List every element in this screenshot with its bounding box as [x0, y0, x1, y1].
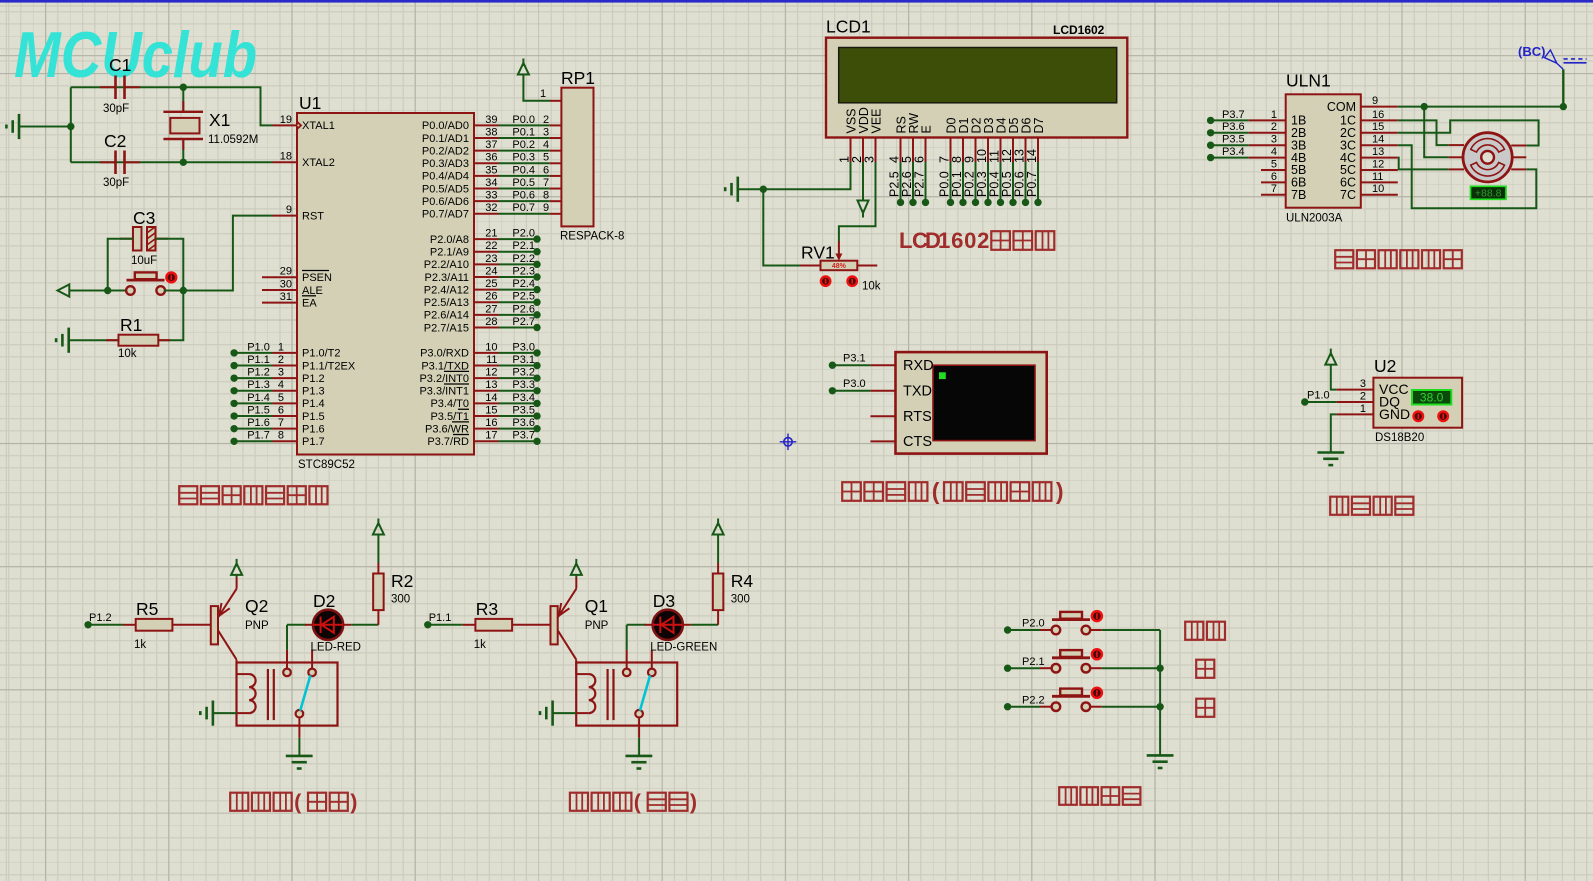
- node P2.5: [897, 199, 904, 206]
- svg-text:22: 22: [485, 240, 497, 252]
- svg-text:9: 9: [1372, 95, 1378, 107]
- svg-text:P2.2/A10: P2.2/A10: [424, 259, 469, 271]
- svg-text:2: 2: [278, 354, 284, 366]
- wire relay NO contact to ground: [638, 718, 640, 738]
- svg-text:21: 21: [485, 228, 497, 240]
- svg-text:P2.7: P2.7: [512, 316, 535, 328]
- LCD pin 2 VDD: [862, 138, 864, 163]
- node P3.4: [1207, 154, 1214, 161]
- junction key bus 2: [1156, 703, 1163, 710]
- LCD pin 4 RS: [900, 138, 902, 163]
- node P2.6: [533, 311, 540, 318]
- wire LCD data P2.6: [912, 162, 914, 202]
- ground (keys): [1147, 754, 1174, 757]
- ground (relay contact): [626, 755, 653, 758]
- svg-text:P2.0/A8: P2.0/A8: [430, 234, 469, 246]
- pin P3.0: [474, 352, 499, 354]
- svg-text:8: 8: [543, 190, 549, 202]
- wire power to VCC: [1331, 365, 1337, 390]
- LCD pin 7 D0: [950, 138, 952, 163]
- node P0.6: [1022, 199, 1029, 206]
- pin P1.2: [273, 377, 298, 379]
- pin P0.1: [474, 137, 499, 139]
- ground (R1): [67, 328, 70, 353]
- wire 2C to motor right-top: [1398, 120, 1539, 145]
- wire P3.1 to RXD: [832, 364, 870, 366]
- node P0.5: [1009, 199, 1016, 206]
- svg-text:P2.7: P2.7: [912, 171, 926, 197]
- svg-text:P0.7/AD7: P0.7/AD7: [422, 209, 469, 221]
- junction crystal left: [67, 123, 74, 130]
- ULN pin COM: [1361, 106, 1398, 108]
- node P0.0: [947, 199, 954, 206]
- wire ground to R1: [69, 339, 119, 341]
- svg-text:TXD: TXD: [903, 384, 932, 400]
- push button key P2.0: [1052, 626, 1061, 635]
- LCD pin 5 RW: [912, 138, 914, 163]
- svg-text:P3.3: P3.3: [512, 379, 535, 391]
- svg-text:7: 7: [1271, 183, 1277, 195]
- svg-text:P1.7: P1.7: [247, 430, 270, 442]
- node P3.7: [1207, 117, 1214, 124]
- wire VEE to RV1 wiper: [839, 162, 876, 241]
- pin RST: [273, 215, 298, 217]
- wire net P3.2: [499, 377, 538, 379]
- wire BC terminal to COM rail: [1562, 69, 1564, 106]
- svg-text:6: 6: [951, 228, 963, 253]
- svg-text:): ): [1056, 478, 1064, 504]
- wire net P2.7: [499, 327, 538, 329]
- svg-text:P3.1/TXD: P3.1/TXD: [421, 360, 469, 372]
- wire net P0.5 to RP1: [499, 188, 550, 190]
- power terminal (R2): [373, 523, 384, 535]
- junction key bus 1: [1156, 665, 1163, 672]
- node P2.2: [1004, 703, 1011, 710]
- svg-text:P0.2/AD2: P0.2/AD2: [422, 145, 469, 157]
- svg-text:COM: COM: [1327, 100, 1356, 114]
- svg-text:39: 39: [485, 114, 497, 126]
- svg-text:ULN2003A: ULN2003A: [1286, 213, 1343, 225]
- svg-text:P3.1: P3.1: [843, 353, 866, 365]
- wire net P3.3: [499, 390, 538, 392]
- caption four-phase stepper motor: [1335, 250, 1353, 268]
- crystal X1: [163, 111, 203, 113]
- pin P1.6: [273, 428, 298, 430]
- LCD pin 1 VSS: [850, 138, 852, 163]
- wire net P3.7: [1211, 119, 1249, 121]
- pin P3.1: [474, 365, 499, 367]
- LCD pin 12 D5: [1012, 138, 1014, 163]
- svg-text:P1.1: P1.1: [429, 612, 452, 624]
- svg-text:7: 7: [278, 417, 284, 429]
- LCD pin 14 D7: [1037, 138, 1039, 163]
- wire crystal top lead: [182, 87, 184, 112]
- power terminal (RP1): [518, 63, 529, 75]
- node VSS/RV1: [760, 186, 767, 193]
- wire terminal to reset button: [69, 290, 127, 292]
- wire 4C to motor left-bottom: [1398, 158, 1449, 170]
- svg-text:12: 12: [485, 367, 497, 379]
- svg-text:P2.2: P2.2: [1022, 694, 1045, 706]
- svg-text:16: 16: [485, 417, 497, 429]
- svg-text:P2.4: P2.4: [512, 278, 535, 290]
- svg-text:R5: R5: [136, 599, 158, 619]
- wire P1.1 to R3: [428, 624, 463, 626]
- svg-text:P2.1/A9: P2.1/A9: [430, 247, 469, 259]
- svg-text:P2.3: P2.3: [512, 265, 535, 277]
- wire P2.0 to key: [1008, 629, 1040, 631]
- key indicator P2.1: [1092, 649, 1102, 659]
- wire key P2.2 to bus: [1089, 706, 1101, 708]
- pin P0.0: [474, 124, 499, 126]
- wire C3 left to reset rail: [108, 239, 133, 291]
- node P2.1: [1004, 665, 1011, 672]
- ground (relay coil): [551, 701, 554, 726]
- wire R5 to Q2 base: [172, 624, 210, 626]
- relay contact pin up (NC): [651, 650, 653, 669]
- relay switch lever: [640, 675, 650, 710]
- svg-text:RST: RST: [302, 210, 324, 222]
- wire ground to relay coil: [553, 712, 577, 714]
- wire net P3.4: [1211, 157, 1249, 159]
- node P1.7: [230, 438, 237, 445]
- svg-text:Q2: Q2: [245, 596, 268, 616]
- svg-text:P3.7: P3.7: [512, 430, 535, 442]
- svg-text:15: 15: [1372, 121, 1384, 133]
- node COM left: [1421, 103, 1428, 110]
- node P2.7: [922, 199, 929, 206]
- svg-text:7: 7: [543, 177, 549, 189]
- svg-text:C2: C2: [104, 131, 126, 151]
- wire LCD data P2.5: [900, 162, 902, 202]
- svg-text:35: 35: [485, 164, 497, 176]
- node P0.2: [972, 199, 979, 206]
- node P3.1: [829, 362, 836, 369]
- svg-text:1: 1: [1271, 109, 1277, 121]
- push button key P2.1: [1052, 664, 1061, 673]
- svg-text:+88.8: +88.8: [1475, 188, 1502, 200]
- svg-text:U1: U1: [299, 93, 321, 113]
- svg-text:(: (: [932, 478, 940, 504]
- wire D2 to R2: [343, 624, 351, 626]
- svg-text:37: 37: [485, 139, 497, 151]
- svg-text:(: (: [294, 790, 302, 814]
- terminal pin TXD: [870, 390, 895, 392]
- wire net P0.1 to RP1: [499, 137, 550, 139]
- wire net P1.3: [234, 390, 272, 392]
- svg-text:D3: D3: [653, 591, 675, 611]
- svg-text:ULN1: ULN1: [1286, 71, 1331, 91]
- svg-text:RP1: RP1: [561, 68, 595, 88]
- pin P3.4: [474, 402, 499, 404]
- svg-text:D2: D2: [313, 591, 335, 611]
- svg-text:300: 300: [391, 594, 410, 606]
- input terminal arrow: [58, 284, 70, 296]
- pin P3.2: [474, 377, 499, 379]
- svg-text:P3.6: P3.6: [1222, 121, 1245, 133]
- svg-text:P3.4/T0: P3.4/T0: [430, 398, 469, 410]
- wire key P2.0 to bus: [1089, 629, 1101, 631]
- wire net P1.6: [234, 428, 272, 430]
- caption serial receive (phone simulation): [842, 482, 861, 501]
- ULN pin 5C: [1361, 169, 1398, 171]
- pin P2.5: [474, 301, 499, 303]
- potentiometer RV1: [800, 265, 821, 267]
- svg-text:2: 2: [1271, 121, 1277, 133]
- svg-text:P3.0: P3.0: [512, 341, 535, 353]
- wire net P2.4: [499, 289, 538, 291]
- svg-text:): ): [690, 790, 697, 814]
- origin marker: [784, 438, 792, 446]
- junction dot above crystal: [180, 84, 187, 91]
- wire key P2.1 to bus: [1089, 667, 1101, 669]
- svg-text:11.0592M: 11.0592M: [208, 134, 258, 146]
- pin P1.1: [273, 365, 298, 367]
- svg-text:P3.5: P3.5: [512, 404, 535, 416]
- node P3.4: [533, 400, 540, 407]
- node P3.5: [533, 412, 540, 419]
- svg-text:L: L: [899, 228, 912, 253]
- wire LCD data P0.7: [1037, 162, 1039, 202]
- svg-text:P1.1: P1.1: [247, 354, 270, 366]
- svg-text:3: 3: [1271, 134, 1277, 146]
- svg-text:P1.5: P1.5: [247, 404, 270, 416]
- svg-text:PNP: PNP: [585, 620, 609, 632]
- caption independent keys: [1059, 787, 1077, 805]
- pin P1.4: [273, 402, 298, 404]
- ULN pin 1B: [1249, 119, 1286, 121]
- svg-text:): ): [350, 790, 357, 814]
- svg-text:11: 11: [1372, 171, 1383, 183]
- ground (relay coil): [212, 701, 215, 726]
- node P1.2: [84, 621, 91, 628]
- wire net P1.1: [234, 365, 272, 367]
- svg-text:12: 12: [1372, 158, 1384, 170]
- svg-text:GND: GND: [1379, 406, 1410, 422]
- transistor Q1 PNP: [551, 606, 558, 644]
- pin P1.3: [273, 390, 298, 392]
- svg-text:P3.4: P3.4: [1222, 146, 1245, 158]
- svg-text:R3: R3: [476, 599, 498, 619]
- wire LCD data P2.7: [925, 162, 927, 202]
- caption relay 继电器(制冷): [570, 793, 588, 811]
- svg-text:P2.3/A11: P2.3/A11: [425, 272, 469, 284]
- pin P1.7: [273, 440, 298, 442]
- wire R3 to Q1 base: [512, 624, 550, 626]
- wire P1.2 to R5: [88, 624, 123, 626]
- svg-text:P0.1: P0.1: [512, 126, 535, 138]
- terminal pin RTS: [870, 415, 895, 417]
- svg-text:P3.1: P3.1: [512, 354, 535, 366]
- LED D3 LED-GREEN: [627, 624, 646, 626]
- ground (LCD VSS): [736, 177, 739, 202]
- node P0.3: [984, 199, 991, 206]
- svg-text:10: 10: [485, 341, 497, 353]
- svg-text:P0.0/AD0: P0.0/AD0: [422, 120, 469, 132]
- svg-text:2: 2: [1360, 390, 1366, 402]
- wire COM rail: [1398, 106, 1564, 108]
- motor speed display +88.8: [1471, 186, 1507, 199]
- pin P0.3: [474, 162, 499, 164]
- LCD pin 11 D4: [1000, 138, 1002, 163]
- svg-text:P1.3: P1.3: [302, 386, 325, 398]
- node P3.3: [533, 387, 540, 394]
- capacitor C1: [100, 86, 116, 88]
- svg-text:P3.7: P3.7: [1222, 109, 1245, 121]
- wire net P2.0: [499, 238, 538, 240]
- ULN pin 2B: [1249, 132, 1286, 134]
- pin P2.1: [474, 251, 499, 253]
- pin XTAL2: [273, 161, 298, 163]
- svg-text:P3.7/RD: P3.7/RD: [427, 436, 469, 448]
- pin P0.4: [474, 175, 499, 177]
- svg-text:1: 1: [938, 228, 950, 253]
- wire 3C to motor right-bottom: [1398, 145, 1537, 208]
- svg-text:P0.4: P0.4: [512, 164, 535, 176]
- svg-text:C3: C3: [133, 208, 155, 228]
- node P1.0: [1301, 398, 1308, 405]
- relay coil+contacts (继电器(制冷)): [576, 663, 677, 726]
- svg-text:XTAL1: XTAL1: [302, 120, 335, 132]
- svg-text:30: 30: [280, 278, 292, 290]
- ULN pin 3C: [1361, 144, 1398, 146]
- svg-text:8: 8: [278, 430, 284, 442]
- svg-text:STC89C52: STC89C52: [298, 459, 355, 471]
- serial virtual terminal (phone side): [896, 352, 1047, 454]
- node P1.3: [230, 387, 237, 394]
- LCD display LCD1 LCD1602: [826, 38, 1127, 138]
- power terminal (U2): [1325, 353, 1336, 365]
- wire net P2.6: [499, 314, 538, 316]
- wire net P1.7: [234, 440, 272, 442]
- svg-text:17: 17: [485, 430, 497, 442]
- svg-text:1k: 1k: [134, 639, 146, 651]
- svg-text:9: 9: [543, 202, 549, 214]
- svg-text:P1.6: P1.6: [302, 423, 325, 435]
- svg-text:3: 3: [862, 156, 876, 163]
- wire net P0.7 to RP1: [499, 213, 550, 215]
- svg-text:P1.0: P1.0: [1307, 390, 1330, 402]
- svg-text:P3.0/RXD: P3.0/RXD: [420, 348, 469, 360]
- wire net P2.1: [499, 251, 538, 253]
- svg-text:P1.2: P1.2: [302, 373, 325, 385]
- svg-text:P2.2: P2.2: [512, 253, 535, 265]
- node P3.0: [829, 387, 836, 394]
- svg-text:DS18B20: DS18B20: [1375, 432, 1424, 444]
- wire key ground bus: [1159, 630, 1161, 755]
- pin P2.2: [474, 263, 499, 265]
- svg-text:25: 25: [485, 278, 497, 290]
- wire LCD data P0.5: [1012, 162, 1014, 202]
- driver ULN1 ULN2003A: [1286, 94, 1361, 207]
- wire reset button to junction: [164, 290, 183, 292]
- temperature sensor U2 DS18B20: [1373, 378, 1462, 428]
- svg-text:5: 5: [278, 392, 284, 404]
- node P2.0: [533, 235, 540, 242]
- svg-text:P2.7/A15: P2.7/A15: [424, 322, 469, 334]
- wire net P1.0 to DQ: [1305, 401, 1337, 403]
- svg-text:28: 28: [485, 316, 497, 328]
- svg-text:LCD1: LCD1: [826, 17, 871, 37]
- svg-text:P0.0: P0.0: [512, 114, 535, 126]
- wire net P1.4: [234, 402, 272, 404]
- svg-text:48%: 48%: [832, 263, 847, 270]
- resistor R1: [119, 335, 159, 346]
- svg-text:3: 3: [543, 126, 549, 138]
- wire net P3.1: [499, 365, 538, 367]
- caption minus: [1196, 699, 1214, 717]
- LCD pin 3 VEE: [875, 138, 877, 163]
- transistor Q2 PNP: [211, 606, 218, 644]
- pin ALE: [262, 289, 297, 291]
- svg-text:P1.2: P1.2: [247, 367, 270, 379]
- ULN pin 7C: [1361, 194, 1398, 196]
- svg-text:P3.4: P3.4: [512, 392, 535, 404]
- svg-text:P1.3: P1.3: [247, 379, 270, 391]
- svg-text:P0.4/AD4: P0.4/AD4: [422, 171, 469, 183]
- svg-text:U2: U2: [1374, 356, 1396, 376]
- svg-text:32: 32: [485, 202, 497, 214]
- LCD pin 8 D1: [962, 138, 964, 163]
- wire net P3.5: [1211, 144, 1249, 146]
- node P3.7: [533, 438, 540, 445]
- svg-text:P3.5: P3.5: [1222, 134, 1245, 146]
- svg-text:2: 2: [543, 114, 549, 126]
- svg-text:EA: EA: [302, 297, 317, 309]
- pin PSEN: [262, 276, 297, 278]
- svg-text:16: 16: [1372, 109, 1384, 121]
- LCD pin 9 D2: [975, 138, 977, 163]
- ground (crystal circuit): [18, 114, 21, 139]
- wire LCD data P0.0: [950, 162, 952, 202]
- terminal pin CTS: [870, 440, 895, 442]
- svg-text:P0.5/AD5: P0.5/AD5: [422, 183, 469, 195]
- caption plus: [1196, 660, 1214, 678]
- node P2.5: [533, 299, 540, 306]
- wire net P3.0: [499, 352, 538, 354]
- pin P2.4: [474, 289, 499, 291]
- wire net P0.3 to RP1: [499, 162, 550, 164]
- node P2.3: [533, 273, 540, 280]
- svg-text:30pF: 30pF: [103, 103, 129, 115]
- wire net P1.5: [234, 415, 272, 417]
- svg-text:E: E: [920, 125, 934, 133]
- svg-text:PSEN: PSEN: [302, 272, 332, 284]
- svg-text:10uF: 10uF: [131, 255, 157, 267]
- node P2.2: [533, 261, 540, 268]
- U2 pin GND: [1337, 413, 1374, 415]
- svg-text:6: 6: [543, 164, 549, 176]
- capacitor C2: [100, 161, 116, 163]
- ULN pin 5B: [1261, 169, 1286, 171]
- wire C3 right to reset rail: [156, 239, 184, 291]
- wire LCD data P0.4: [1000, 162, 1002, 202]
- caption set: [1185, 622, 1203, 640]
- ground (relay contact): [286, 755, 313, 758]
- wire R1 to reset rail: [158, 291, 183, 341]
- relay coil+contacts (继电器(加热)): [237, 663, 338, 726]
- wire P2.2 to key: [1008, 706, 1040, 708]
- node P2.7: [533, 324, 540, 331]
- svg-text:R2: R2: [391, 571, 413, 591]
- svg-text:6: 6: [1271, 171, 1277, 183]
- pin P2.7: [474, 327, 499, 329]
- svg-text:P1.2: P1.2: [89, 612, 112, 624]
- svg-text:(: (: [634, 790, 642, 814]
- wire net P1.2: [234, 377, 272, 379]
- wire D3 to R4: [683, 624, 691, 626]
- svg-text:PNP: PNP: [245, 620, 269, 632]
